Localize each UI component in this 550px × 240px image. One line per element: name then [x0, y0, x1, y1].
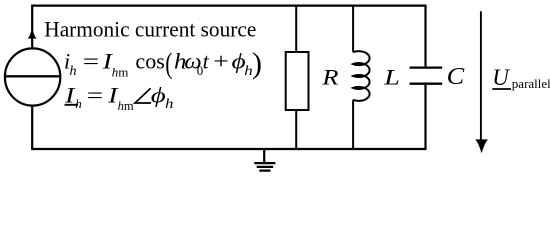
- underline of U: [492, 88, 511, 90]
- svg-text:+: +: [213, 50, 229, 74]
- svg-text:C: C: [447, 64, 466, 90]
- equation 1: i_h = I_hm cos(h w0 t + phi_h): [64, 47, 262, 80]
- svg-text:hm: hm: [118, 99, 134, 113]
- current direction arrowhead (up): [28, 28, 37, 39]
- current source circle: [5, 48, 60, 105]
- svg-text:U: U: [492, 65, 510, 90]
- ground stub wire: [263, 149, 265, 163]
- svg-text:=: =: [87, 83, 103, 108]
- svg-text:R: R: [321, 65, 338, 90]
- svg-text:hm: hm: [112, 64, 129, 79]
- capacitor C bottom plate: [410, 83, 443, 85]
- equation 2: I_h = I_hm angle phi_h: [64, 83, 173, 113]
- wire R top lead: [295, 6, 297, 53]
- svg-text:=: =: [83, 49, 99, 74]
- inductor L coil: [353, 51, 369, 101]
- ground symbol: [254, 163, 275, 171]
- svg-text:L: L: [383, 64, 400, 90]
- voltage arrowhead (down): [475, 139, 488, 153]
- wire bottom bus with left and right corner leads: [32, 85, 425, 149]
- svg-text:Harmonic current source: Harmonic current source: [44, 17, 256, 42]
- voltage arrow U_parallel shaft: [480, 11, 482, 140]
- capacitor C top plate: [410, 66, 443, 68]
- underline of phasor I: [65, 104, 78, 106]
- wire L top lead: [352, 6, 354, 53]
- angle symbol: [135, 88, 151, 103]
- svg-text:parallel: parallel: [512, 76, 550, 91]
- svg-text:ϕ: ϕ: [151, 83, 166, 108]
- svg-text:h: h: [75, 96, 82, 111]
- current source bar: [4, 75, 61, 77]
- svg-text:): ): [252, 47, 262, 80]
- svg-text:cos: cos: [135, 48, 165, 73]
- svg-text:(: (: [165, 47, 172, 80]
- svg-text:h: h: [165, 97, 173, 112]
- wire R bottom lead: [295, 110, 297, 149]
- svg-text:t: t: [203, 48, 210, 73]
- wire L bottom lead: [352, 100, 354, 149]
- wire top bus with left and right corner leads: [32, 6, 425, 67]
- resistor R body: [286, 52, 309, 110]
- svg-text:h: h: [70, 64, 77, 79]
